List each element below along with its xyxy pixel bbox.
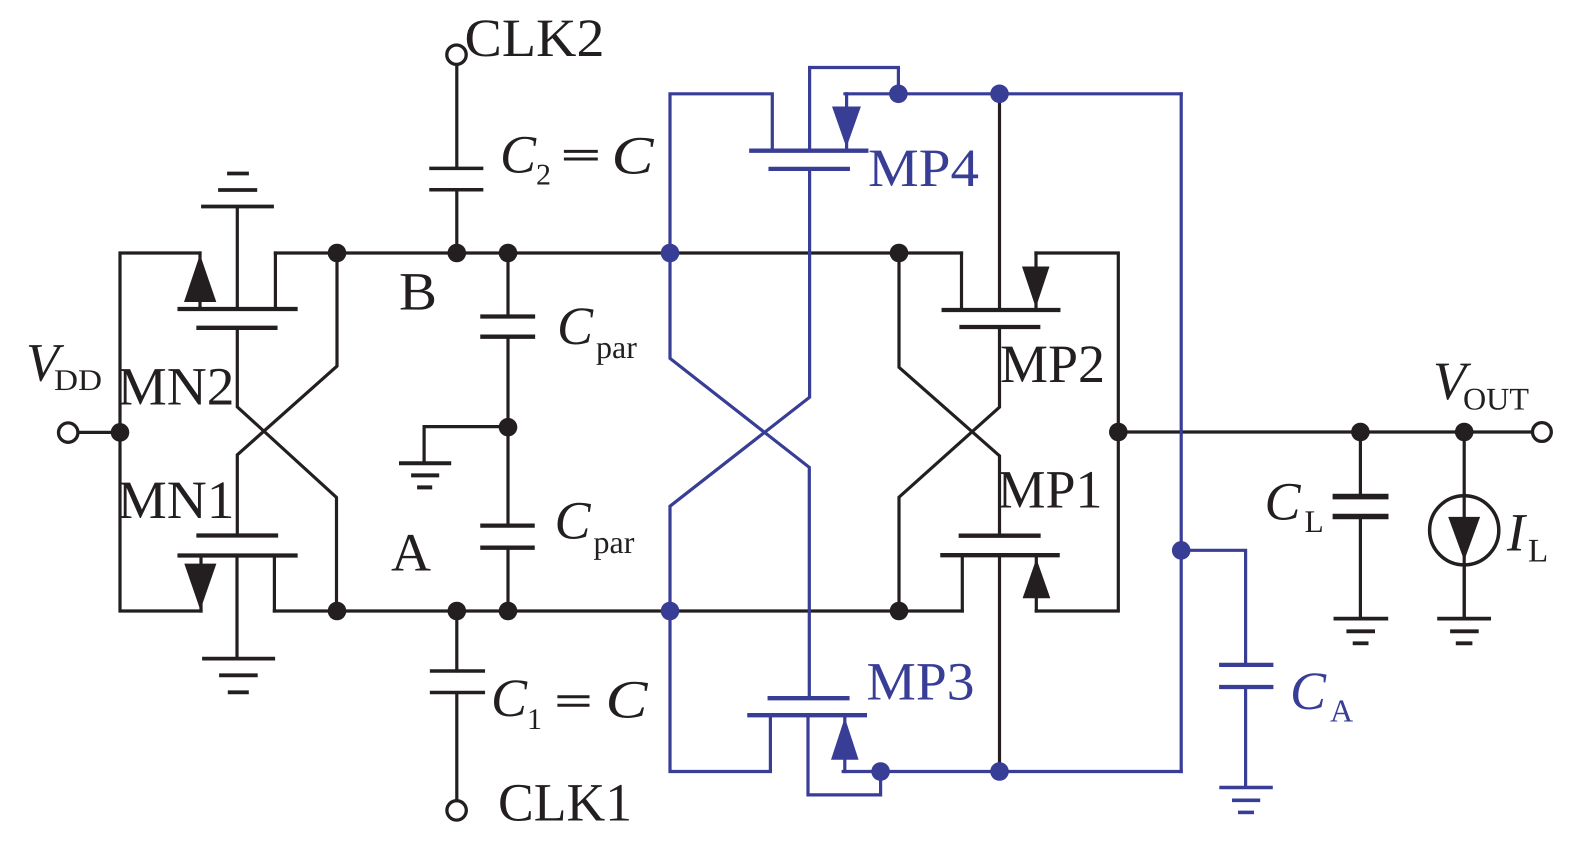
wire C2 to node B: [455, 190, 458, 253]
wire MP4 drain rail (top blue rail): [845, 92, 1181, 95]
svg-text:CLK2: CLK2: [465, 8, 605, 68]
label value C2 = C: [500, 125, 655, 192]
transistor MN1: [180, 536, 296, 659]
capacitor CA: [1221, 665, 1271, 687]
svg-text:B: B: [399, 262, 437, 322]
wire MP3 gate cross-couple to node B: [670, 253, 809, 698]
ground CA: [1221, 788, 1271, 813]
capacitor C2: [431, 168, 482, 189]
capacitor Cpar upper: [482, 317, 533, 337]
node Cpar lower on rail A: [499, 602, 518, 621]
transistor MP3: [749, 698, 880, 795]
wire MN2 gate cross-couple to node A: [237, 328, 336, 611]
wire C1 to CLK1 terminal: [455, 693, 458, 800]
node MP1 bulk on blue bottom rail: [990, 762, 1009, 781]
wire blue right riser: [1180, 94, 1183, 772]
capacitor Cpar lower: [482, 526, 532, 548]
transistor MN2: [180, 207, 296, 328]
svg-text:MP1: MP1: [998, 460, 1103, 520]
node MP3 on rail A (blue): [661, 602, 680, 621]
svg-text:C: C: [612, 126, 655, 186]
node B left junction: [328, 244, 347, 263]
ground CL: [1335, 619, 1386, 644]
node middle ground junction: [499, 418, 518, 437]
transistor MP1: [942, 432, 1118, 772]
wire MN2 drain to node B: [275, 251, 337, 254]
svg-text:CLK1: CLK1: [498, 773, 632, 833]
node VDD junction: [111, 423, 130, 442]
node CA junction (blue): [1172, 541, 1191, 560]
terminal CLK1: [447, 801, 466, 820]
wire VDD terminal lead: [78, 431, 120, 434]
svg-text:A: A: [391, 523, 431, 583]
wire MP3 source bracket to node A: [670, 611, 770, 772]
wire VOUT rail: [1118, 430, 1532, 433]
svg-text:C: C: [606, 670, 649, 730]
node A left junction: [328, 602, 347, 621]
ground MN2 bulk: [203, 174, 272, 207]
svg-text:MP4: MP4: [868, 138, 979, 198]
wire MP3 drain rail (bottom blue rail): [843, 770, 1181, 773]
wire MP2 gate cross-couple to node A: [899, 327, 1000, 611]
node MP4 drain junction (blue): [889, 85, 908, 104]
ground MN1 bulk: [204, 659, 273, 693]
node C1 on rail A: [448, 602, 467, 621]
wire CLK2 terminal to C2: [455, 65, 458, 168]
node CL on VOUT rail: [1351, 423, 1370, 442]
node Cpar upper on rail B: [499, 244, 518, 263]
wire MP4 gate cross-couple to node A: [670, 169, 810, 611]
node VOUT junction: [1109, 423, 1128, 442]
label value C1 = C: [491, 668, 649, 736]
svg-text:MN1: MN1: [118, 470, 235, 530]
node MP2 gate on rail A: [890, 602, 909, 621]
transistor MP4: [751, 68, 898, 169]
wire node B rail: [337, 251, 962, 254]
wire MN1 drain to node A: [274, 609, 337, 612]
svg-text:MP3: MP3: [867, 652, 975, 712]
node MP2 bulk on blue top rail: [990, 85, 1009, 104]
wire MP1 gate cross-couple to node B: [899, 253, 1000, 536]
svg-text:MN2: MN2: [118, 357, 235, 417]
ground IL: [1439, 619, 1489, 644]
node IL on VOUT rail: [1455, 423, 1474, 442]
wire MP4 source bracket to node B: [670, 94, 772, 253]
svg-text:MP2: MP2: [1000, 334, 1105, 394]
ground middle (Cpar node): [401, 463, 449, 487]
capacitor C1: [432, 671, 484, 693]
current source IL: [1430, 432, 1499, 618]
capacitor CL: [1335, 432, 1385, 618]
node MP1 gate on rail B: [890, 244, 909, 263]
wire CA to ground: [1244, 688, 1247, 786]
wire CA branch: [1181, 550, 1245, 664]
node MP3 drain junction (blue): [871, 762, 890, 781]
wire node A rail: [337, 609, 962, 612]
wire node B to Cpar upper: [506, 253, 509, 317]
wire middle ground bracket: [424, 427, 508, 462]
terminal VDD: [58, 423, 77, 442]
transistor MP2: [944, 94, 1119, 432]
wire Cpar lower to node A: [506, 548, 509, 611]
wire node A to C1: [455, 611, 458, 671]
terminal VOUT: [1533, 423, 1552, 442]
wire Cpar upper to Cpar lower: [506, 337, 509, 526]
wire VDD left rail: [120, 253, 201, 611]
terminal CLK2: [447, 45, 466, 64]
wire MN1 gate cross-couple to node B: [237, 253, 337, 536]
node C2 on rail B: [448, 244, 467, 263]
node MP4 on rail B (blue): [661, 244, 680, 263]
